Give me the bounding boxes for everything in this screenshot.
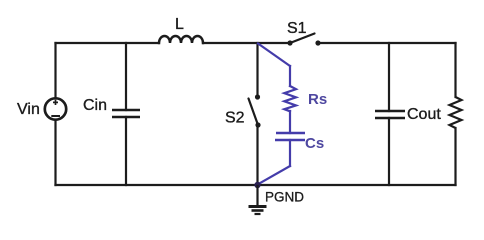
svg-text:Cout: Cout — [407, 106, 441, 123]
wire blue mid vertical — [289, 111, 291, 133]
resistor Rload — [450, 97, 462, 128]
wire Cout branch lower — [388, 118, 390, 185]
wire top rail right segment — [318, 42, 456, 44]
inductor L — [159, 36, 203, 43]
svg-text:Cin: Cin — [83, 97, 107, 114]
node PGND junction — [254, 182, 260, 188]
wire bottom rail — [56, 184, 456, 186]
svg-text:Cs: Cs — [305, 135, 324, 152]
wire S2 branch lower — [256, 125, 258, 185]
wire load branch lower — [454, 128, 456, 185]
svg-text:S2: S2 — [225, 110, 245, 127]
svg-text:Vin: Vin — [17, 101, 40, 118]
svg-text:S1: S1 — [287, 20, 307, 37]
wire blue upper vertical — [289, 66, 291, 86]
svg-text:Rs: Rs — [308, 91, 327, 108]
ground PGND — [249, 185, 267, 214]
wire Cout branch upper — [388, 43, 390, 111]
resistor Rs — [284, 86, 296, 111]
wire blue bottom diagonal — [258, 166, 291, 185]
capacitor Cout — [375, 111, 405, 118]
switch S2 — [249, 94, 261, 127]
wire left rail upper — [54, 43, 56, 98]
wire Cin branch lower — [125, 117, 127, 185]
wire S2 branch upper — [256, 43, 258, 97]
wire top rail middle segment — [203, 42, 290, 44]
capacitor Cin — [112, 110, 140, 117]
voltage source Vin — [45, 98, 66, 119]
wire top rail left segment — [56, 42, 160, 44]
svg-text:PGND: PGND — [265, 190, 304, 205]
snubber branch blue wires — [258, 44, 297, 185]
wire left rail lower — [54, 120, 56, 185]
wire load branch upper — [454, 43, 456, 97]
switch S1 — [287, 34, 320, 46]
wire Cin branch upper — [125, 43, 127, 110]
wire blue top diagonal — [258, 44, 290, 67]
wire blue lower vertical — [289, 140, 291, 166]
svg-text:L: L — [175, 16, 184, 33]
capacitor Cs — [275, 133, 305, 140]
